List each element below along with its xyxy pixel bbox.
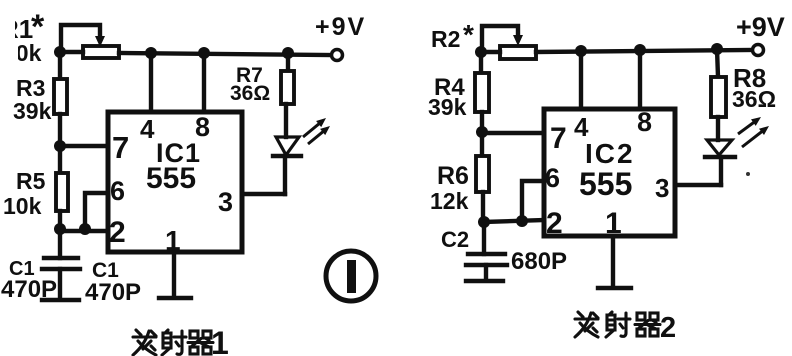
resistor R3 [54,52,67,146]
svg-text:470P: 470P [1,276,57,303]
wire pin3 IC1 to LED [242,192,285,196]
wire pin2 [60,229,108,233]
svg-text:6: 6 [545,163,560,193]
pin number 7 IC2 [550,122,567,155]
label C1 first [9,258,35,280]
svg-text:3: 3 [218,187,233,217]
svg-text:2: 2 [109,216,126,249]
svg-text:555: 555 [579,166,632,202]
node junction R5/C1/pin2 [54,223,66,235]
wire pin1 IC1 to ground [172,252,176,297]
ground under IC2 pin1 [598,286,631,290]
node junction R2/R4 [475,46,487,58]
label 555 right [579,166,632,202]
wire pin4 vertical right [579,51,583,110]
wire pin4 vertical [149,53,153,113]
label R7 value 36ohm [230,82,270,105]
svg-text:470P: 470P [85,279,141,306]
char she [162,330,186,355]
+9V terminal right [753,45,764,56]
pin number 7 IC1 [112,130,129,165]
label R6 value 12k [430,188,469,214]
pin number 6 IC1 [110,176,125,206]
svg-text:39k: 39k [428,94,467,120]
timer IC2 box [544,109,675,236]
pin number 6 IC2 [545,163,560,193]
label R3 value 39k [13,98,52,124]
svg-text:36Ω: 36Ω [230,82,270,105]
label R1 value 10k (partially clipped) [0,40,42,66]
svg-text:680P: 680P [511,248,567,275]
pin number 3 IC1 [218,187,233,217]
svg-text:*: * [463,19,474,50]
label C1 value 470P second [85,279,141,306]
svg-text:2: 2 [546,207,563,240]
wire pin8 vertical [202,53,206,113]
label C2 value 680P [511,248,567,275]
resistor R4 [475,52,489,131]
label R6 [437,162,469,190]
node R7 junction [282,47,294,59]
svg-text:+9V: +9V [315,13,366,41]
label C1 second [92,259,119,282]
pin number 4 IC1 [140,114,155,144]
node junction R4/R6/pin7 [476,126,488,138]
char qi [635,313,660,336]
svg-text:C2: C2 [441,227,469,252]
label IC1 [156,138,201,168]
wire pin2 right [484,220,544,222]
svg-text:+9V: +9V [736,12,785,42]
resistor R8 [711,49,726,140]
label R8 [733,63,766,93]
ground under C2 [466,279,503,283]
label R4 value 39k [428,94,467,120]
svg-text:R6: R6 [437,162,469,190]
LED D2 light arrows [738,117,769,147]
node junction R1/R3 left rail [54,46,66,58]
label R7 [236,64,263,87]
label 555 left [146,162,196,195]
node pin4 junction [145,47,157,59]
pin number 2 IC2 [546,207,563,240]
label R3 [16,75,45,101]
label IC2 [585,138,635,169]
char she [606,312,630,337]
LED D1 light arrows [303,118,330,144]
pin number 2 IC1 [109,216,126,249]
label +9V right [736,12,785,42]
svg-text:2: 2 [660,312,676,344]
svg-text:R5: R5 [16,168,46,194]
pin number 1 IC2 [605,207,622,240]
caption digit 1 [211,325,229,356]
+9V terminal left [332,50,343,61]
char fa [575,312,598,337]
node R8 junction [711,43,723,55]
wire pin8 vertical right [638,50,642,110]
caption transmitter 1 (fa she qi 1) [133,330,213,355]
caption digit 2 [660,312,676,344]
svg-text:3: 3 [655,173,669,203]
node junction R3/R5/pin7 [54,140,66,152]
stray print speckle [746,172,750,176]
svg-text:1: 1 [211,325,229,356]
wire pin6 branch right [522,181,544,221]
pin number 8 IC1 [195,112,210,142]
wire pin3 IC2 to LED [675,183,721,187]
label +9V left [315,13,366,41]
svg-text:4: 4 [140,114,155,144]
pin number 4 IC2 [574,112,589,142]
wire pin7 [60,144,108,148]
resistor R6 [476,132,489,222]
node junction pin6 branch [79,223,91,235]
wire pin6 branch [85,193,108,229]
ground under C1 [42,298,79,302]
label R1 reference (partially clipped) [0,8,45,46]
svg-text:8: 8 [637,107,652,137]
pin number 3 IC2 [655,173,669,203]
node pin4 junction right [575,45,587,57]
label C2 [441,227,469,252]
pin number 1 IC1 [165,225,181,256]
char fa [133,330,156,355]
node pin8 junction [198,47,210,59]
svg-text:39k: 39k [13,98,52,124]
wire pin1 IC2 to ground [611,236,615,287]
potentiometer R1 [60,25,119,58]
svg-text:IC2: IC2 [585,138,635,169]
node junction R6/C2 [478,216,490,228]
wire top rail right circuit [536,50,752,52]
label R5 value 10k [3,193,42,219]
resistor R5 [56,146,68,229]
svg-text:36Ω: 36Ω [732,86,776,112]
label C1 value 470P first [1,276,57,303]
label R2 reference [431,19,474,52]
caption transmitter 2 (fa she qi 2) [575,312,660,337]
wire top rail left circuit [119,53,331,55]
op-amp timer IC1 box [108,112,242,252]
label R4 [434,74,465,101]
svg-text:7: 7 [550,122,567,155]
node pin8 junction right [634,44,646,56]
resistor R7 [281,53,294,137]
capacitor C1 [42,229,80,299]
svg-text:R2: R2 [431,26,460,52]
svg-text:7: 7 [112,130,129,165]
svg-text:555: 555 [146,162,196,195]
circled figure number 1 [326,251,376,301]
char qi [188,331,213,354]
LED D2 [705,140,735,185]
svg-text:6: 6 [110,176,125,206]
label R5 [16,168,46,194]
ground under IC1 pin1 [159,296,191,300]
pin number 8 IC2 [637,107,652,137]
potentiometer R2 [481,26,536,59]
svg-text:10k: 10k [3,193,42,219]
LED D1 [273,137,301,194]
wire pin7 right [482,131,544,135]
label R8 value 36ohm [732,86,776,112]
svg-text:12k: 12k [430,188,469,214]
node junction pin6 branch right [516,215,528,227]
capacitor C2 [466,222,507,280]
